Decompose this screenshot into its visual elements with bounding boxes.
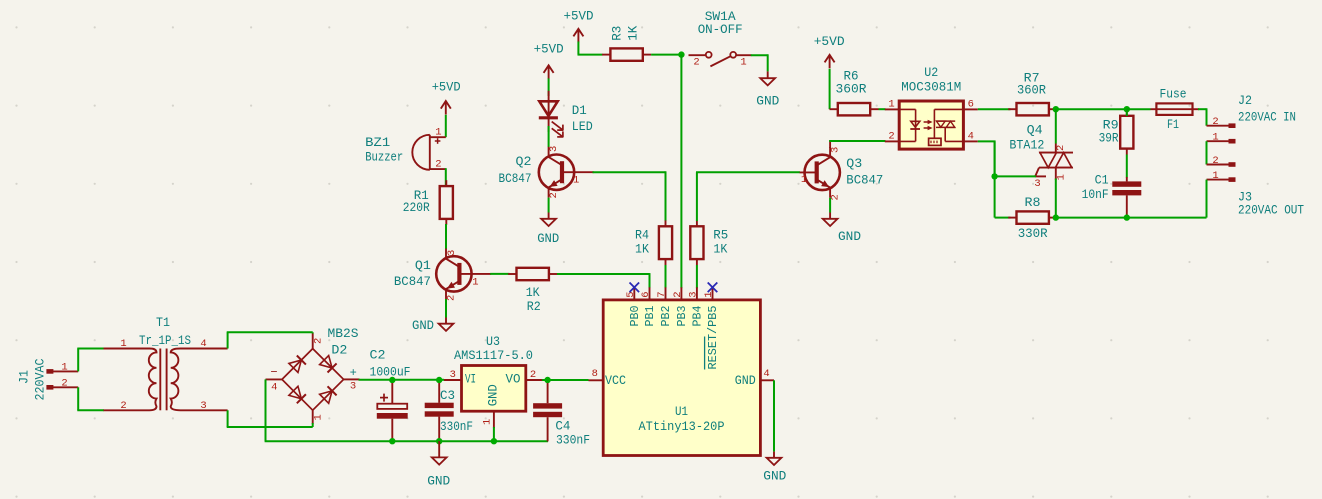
- svg-text:U1: U1: [675, 404, 688, 419]
- wire J1 pin2 down: [77, 387, 79, 410]
- wire T1 pin4 up: [227, 332, 229, 348]
- wire to bridge AC bottom: [227, 426, 313, 428]
- pin number 3 of T1: [200, 400, 206, 412]
- junction C3 bottom: [436, 438, 442, 444]
- pin name PB3: [676, 305, 689, 326]
- svg-text:3: 3: [350, 380, 356, 392]
- minus sign of D2: [270, 365, 277, 379]
- pin name PB4: [691, 305, 704, 326]
- svg-text:3: 3: [200, 400, 206, 412]
- junction C2 bottom: [389, 438, 395, 444]
- label GND: [427, 473, 450, 488]
- svg-text:3: 3: [450, 369, 456, 381]
- svg-text:C2: C2: [370, 348, 386, 363]
- no-connect X on U1 pin 1: [708, 283, 718, 293]
- ground (Q2): [541, 219, 556, 226]
- wire D1 to Q2 collector: [548, 126, 550, 147]
- svg-text:1000uF: 1000uF: [370, 365, 411, 380]
- wire R5 to U1 pin 3 (PB4): [696, 265, 698, 288]
- power +5VD (feeds BZ1): [441, 101, 451, 115]
- pin name GND of U1: [735, 374, 756, 388]
- junction C4 top: [544, 377, 550, 383]
- svg-text:C4: C4: [555, 418, 570, 433]
- label 220VAC IN: [1238, 109, 1296, 124]
- svg-text:BZ1: BZ1: [365, 135, 390, 150]
- pin number 6 of U2: [968, 98, 974, 110]
- wire down to GND: [767, 54, 769, 71]
- ground stub: [767, 71, 769, 78]
- connector J2 pin 1: [1207, 139, 1236, 144]
- label 220VAC: [33, 358, 48, 400]
- pin number 1 of U1: [703, 291, 715, 297]
- svg-text:1: 1: [703, 291, 715, 297]
- label D1: [572, 103, 587, 118]
- svg-text:R8: R8: [1025, 195, 1041, 210]
- svg-text:2: 2: [548, 192, 560, 198]
- svg-text:PB4: PB4: [691, 305, 704, 326]
- svg-text:3: 3: [1034, 178, 1040, 190]
- svg-text:1K: 1K: [635, 242, 649, 257]
- svg-text:2: 2: [445, 295, 457, 301]
- svg-text:R4: R4: [635, 227, 649, 242]
- wire junction to fuse: [1127, 108, 1151, 110]
- svg-text:R3: R3: [610, 26, 625, 41]
- label 360R: [836, 82, 867, 97]
- svg-text:1: 1: [312, 414, 324, 420]
- svg-text:3: 3: [446, 250, 458, 256]
- svg-text:+5VD: +5VD: [814, 34, 845, 49]
- ground stub: [773, 452, 775, 458]
- svg-text:GND: GND: [763, 469, 786, 484]
- label Q3: [846, 156, 862, 171]
- pin number 2 of Q4: [1055, 145, 1067, 151]
- resistor R9: [1120, 110, 1133, 155]
- wire J2 pin1 to J3 pin2: [1206, 141, 1208, 164]
- svg-text:1: 1: [801, 174, 807, 186]
- svg-text:+5VD: +5VD: [564, 9, 594, 24]
- svg-text:10nF: 10nF: [1082, 187, 1109, 202]
- pin number 2 of U2: [888, 131, 894, 143]
- label J3: [1238, 189, 1252, 204]
- label +5VD: [814, 34, 845, 49]
- ground stub: [445, 318, 447, 324]
- svg-text:39R: 39R: [1099, 131, 1119, 146]
- svg-text:1: 1: [120, 338, 126, 350]
- wire bottom rail to J3: [1057, 217, 1206, 219]
- svg-text:GND: GND: [838, 229, 861, 244]
- pin number 4 of U1: [763, 368, 769, 380]
- junction C1/rail: [1124, 214, 1130, 220]
- pin name PB1: [644, 305, 657, 326]
- label ON-OFF: [698, 22, 743, 37]
- svg-text:+: +: [350, 366, 357, 380]
- svg-text:Tr_1P_1S: Tr_1P_1S: [139, 333, 191, 348]
- wire Q3 collector to U2 pin 2: [829, 140, 885, 142]
- pin number 2 of J3: [1212, 155, 1218, 167]
- connector J3 pin 2: [1207, 162, 1236, 167]
- pin number 3 of Q1: [446, 250, 458, 256]
- wire bridge plus to C2: [359, 379, 393, 381]
- label BC847: [394, 274, 431, 289]
- label 1K: [526, 285, 540, 300]
- svg-text:GND: GND: [427, 473, 450, 488]
- label Fuse: [1160, 87, 1187, 102]
- svg-text:U2: U2: [924, 65, 938, 80]
- label +5VD: [534, 42, 564, 57]
- wire +5VD to BZ1 pin1: [445, 115, 447, 137]
- no-connect X on U1 pin 5: [630, 283, 640, 293]
- svg-text:PB2: PB2: [660, 305, 673, 326]
- svg-text:GND: GND: [537, 231, 559, 246]
- label C2: [370, 348, 386, 363]
- transistor Q1: [436, 249, 491, 300]
- label R2: [527, 299, 541, 314]
- svg-text:1: 1: [1212, 132, 1218, 144]
- wire down to U1 pin 6 (PB1): [649, 273, 651, 288]
- fuse F1: [1151, 103, 1200, 115]
- pin number 1 of J2: [1212, 132, 1218, 144]
- svg-text:C1: C1: [1095, 173, 1109, 188]
- wire bridge minus down: [265, 379, 267, 441]
- svg-text:J1: J1: [17, 370, 32, 384]
- svg-text:2: 2: [830, 194, 842, 200]
- svg-text:1: 1: [472, 276, 478, 288]
- transistor Q4 triac BTA12: [1035, 144, 1073, 181]
- svg-text:5: 5: [625, 291, 637, 297]
- svg-text:R2: R2: [527, 299, 541, 314]
- wire U2 pin 4 right: [978, 140, 996, 142]
- op-amp U2 optocoupler MOC3081M body: [899, 101, 963, 149]
- svg-text:220VAC OUT: 220VAC OUT: [1238, 202, 1304, 217]
- pin number 2 of U1: [672, 291, 684, 297]
- ground (Q1): [439, 324, 454, 331]
- power +5VD (feeds R6): [825, 55, 835, 69]
- svg-text:Q2: Q2: [516, 154, 532, 169]
- label +5VD: [432, 80, 461, 95]
- svg-text:220VAC: 220VAC: [33, 358, 48, 400]
- svg-text:2: 2: [888, 131, 894, 143]
- connector J2 pin 2: [1207, 123, 1236, 128]
- label R7: [1024, 70, 1040, 85]
- svg-text:RESET/PB5: RESET/PB5: [707, 305, 720, 369]
- pin name VO: [506, 372, 521, 386]
- resistor R4: [659, 220, 672, 265]
- svg-text:AMS1117-5.0: AMS1117-5.0: [454, 348, 533, 363]
- label R9: [1103, 117, 1119, 132]
- label R3: [610, 26, 625, 41]
- switch SW1A: [689, 52, 752, 67]
- wire U2 pin6 to R7: [978, 108, 1011, 110]
- label R5: [713, 227, 728, 242]
- svg-text:+5VD: +5VD: [432, 80, 461, 95]
- svg-text:1K: 1K: [526, 285, 540, 300]
- svg-text:Q4: Q4: [1027, 122, 1043, 137]
- wire down to R4: [665, 171, 667, 221]
- junction U3 GND: [491, 438, 497, 444]
- ground stub: [438, 441, 440, 457]
- svg-text:Q1: Q1: [415, 258, 431, 273]
- label R8: [1025, 195, 1041, 210]
- svg-text:3: 3: [548, 146, 560, 152]
- pin number 2 of D2: [312, 338, 324, 344]
- wire R2 to U1 pin 6 column: [557, 273, 650, 275]
- pin number 1 of U2: [888, 98, 894, 110]
- label 1K: [713, 242, 727, 257]
- svg-text:MB2S: MB2S: [328, 326, 359, 341]
- pin number 2 of U3: [530, 369, 536, 381]
- label Q1: [415, 258, 431, 273]
- svg-text:VCC: VCC: [605, 374, 626, 388]
- wire fuse to J2: [1198, 108, 1207, 110]
- svg-text:4: 4: [200, 338, 206, 350]
- diode D1 LED: [539, 91, 563, 138]
- wire to Q3 base: [696, 171, 800, 173]
- label 1K: [626, 26, 641, 41]
- svg-text:3: 3: [687, 291, 699, 297]
- svg-text:−: −: [270, 365, 277, 379]
- label +5VD: [564, 9, 594, 24]
- label F1: [1167, 117, 1179, 132]
- wire J3 pin1 down to bottom rail: [1206, 180, 1208, 218]
- resistor R6: [830, 103, 879, 115]
- wire gate of Q4: [995, 175, 1036, 177]
- connector J1 pin 2: [46, 385, 78, 390]
- svg-text:4: 4: [271, 382, 277, 394]
- U2 internal LED and triac drawing: [885, 109, 978, 145]
- pin number 3 of U3: [450, 369, 456, 381]
- wire R4 to U1 pin 7 (PB2): [665, 265, 667, 288]
- svg-text:+5VD: +5VD: [534, 42, 564, 57]
- svg-text:1K: 1K: [626, 26, 641, 41]
- label MB2S: [328, 326, 359, 341]
- label C4: [555, 418, 570, 433]
- svg-text:BTA12: BTA12: [1009, 138, 1044, 153]
- ground stub: [548, 213, 550, 219]
- wire R3 to junction: [651, 54, 681, 56]
- label U1: [675, 404, 688, 419]
- label GND: [838, 229, 861, 244]
- wire corner down: [994, 141, 996, 176]
- wire Q1 base to R2: [490, 273, 509, 275]
- wire to R8: [995, 217, 1011, 219]
- wire U3 GND down: [493, 427, 495, 441]
- svg-text:330nF: 330nF: [556, 433, 590, 448]
- pin number 4 of U2: [968, 131, 974, 143]
- pin number 3 of U1: [687, 291, 699, 297]
- pin name PB0: [629, 305, 642, 326]
- label GND: [537, 231, 559, 246]
- label SW1A: [705, 9, 736, 24]
- U1 pins: [589, 287, 775, 380]
- svg-text:2: 2: [1212, 116, 1218, 128]
- pin name RESET/PB5 with overbar: [705, 305, 720, 369]
- svg-text:2: 2: [120, 400, 126, 412]
- label 220VAC OUT: [1238, 202, 1304, 217]
- label BC847: [499, 171, 532, 186]
- svg-text:J2: J2: [1238, 93, 1252, 108]
- svg-text:1: 1: [435, 126, 441, 138]
- svg-text:LED: LED: [572, 119, 593, 134]
- label U3: [486, 334, 500, 349]
- svg-text:Q3: Q3: [846, 156, 862, 171]
- svg-text:2: 2: [530, 369, 536, 381]
- wire SW1A pin1 right: [751, 54, 768, 56]
- pin number 2 of BZ1: [435, 159, 441, 171]
- pin number 7 of U1: [656, 291, 668, 297]
- label BZ1: [365, 135, 390, 150]
- transformer T1: [104, 349, 228, 411]
- pin number 1 of BZ1: [435, 126, 441, 138]
- op-amp U3 regulator AMS1117-5.0 body: [462, 366, 526, 412]
- junction R7/triac: [1053, 106, 1059, 112]
- label 360R: [1017, 82, 1046, 97]
- label AMS1117-5.0: [454, 348, 533, 363]
- wire to T1 pin 1: [77, 348, 104, 350]
- svg-text:1: 1: [573, 175, 579, 187]
- label 10nF: [1082, 187, 1109, 202]
- label 220R: [403, 200, 430, 215]
- svg-text:330R: 330R: [1018, 226, 1048, 241]
- svg-text:3: 3: [830, 147, 842, 153]
- resistor R8: [1008, 211, 1057, 223]
- wire +5VD down to R6: [829, 69, 831, 109]
- pin number 2 of T1: [120, 400, 126, 412]
- wire J1 pin1 up: [77, 349, 79, 372]
- wire corner: [312, 332, 314, 333]
- svg-text:ATtiny13-20P: ATtiny13-20P: [639, 419, 725, 434]
- svg-text:1: 1: [888, 98, 894, 110]
- wire bottom rail left: [265, 440, 393, 442]
- svg-text:7: 7: [656, 291, 668, 297]
- pin number 1 of U3: [482, 419, 494, 425]
- resistor R7: [1008, 103, 1057, 115]
- resistor R1: [440, 180, 453, 225]
- svg-text:2: 2: [1055, 145, 1067, 151]
- label Q2: [516, 154, 532, 169]
- resistor R2: [508, 268, 557, 280]
- svg-text:Fuse: Fuse: [1160, 87, 1187, 102]
- label J1: [17, 370, 32, 384]
- wire BZ1 to R1: [445, 168, 447, 186]
- svg-text:2: 2: [312, 338, 324, 344]
- pin number 2 of J2: [1212, 116, 1218, 128]
- pin number 1 of SW1A: [740, 56, 746, 68]
- plus sign of D2: [350, 366, 357, 380]
- connector J3 pin 1: [1207, 177, 1236, 182]
- junction node SW/PB3: [678, 51, 684, 57]
- label 1K: [635, 242, 649, 257]
- svg-text:1: 1: [740, 56, 746, 68]
- junction gate: [991, 173, 997, 179]
- wire T1 pin3 down: [227, 410, 229, 427]
- svg-text:GND: GND: [735, 374, 756, 388]
- label BTA12: [1009, 138, 1044, 153]
- pin number 1 of Q1: [472, 276, 478, 288]
- pin number 2 of Q2: [548, 192, 560, 198]
- svg-text:BC847: BC847: [499, 171, 532, 186]
- svg-text:C3: C3: [440, 388, 455, 403]
- transistor Q3: [800, 147, 840, 198]
- wire C3 to U3 pin VI: [439, 379, 444, 381]
- ground (SW1A): [760, 78, 775, 85]
- svg-text:220R: 220R: [403, 200, 430, 215]
- svg-text:MOC3081M: MOC3081M: [901, 80, 961, 95]
- wire bottom rail: [391, 440, 548, 442]
- capacitor C1: [1112, 177, 1141, 218]
- ground (U1): [767, 458, 782, 465]
- pin number 1 of T1: [120, 338, 126, 350]
- svg-text:360R: 360R: [1017, 82, 1046, 97]
- label MOC3081M: [901, 80, 961, 95]
- wire Q2 base to R4 column: [593, 171, 666, 173]
- svg-text:VO: VO: [506, 372, 521, 386]
- svg-text:6: 6: [640, 291, 652, 297]
- pin number 3 of Q3: [830, 147, 842, 153]
- wire junction to R9: [1126, 109, 1128, 116]
- svg-text:2: 2: [672, 291, 684, 297]
- wire R6 to U2 pin 1: [879, 108, 886, 110]
- label C3: [440, 388, 455, 403]
- label T1: [156, 315, 170, 330]
- label Q4: [1027, 122, 1043, 137]
- wire +5VD to D1 anode: [548, 78, 550, 96]
- pin name VI: [465, 372, 476, 386]
- pin number 1 of Q2: [573, 175, 579, 187]
- label LED: [572, 119, 593, 134]
- wire R7 to fuse row: [1057, 108, 1127, 110]
- wire R9 to C1: [1126, 155, 1128, 178]
- svg-text:VI: VI: [465, 372, 476, 386]
- wire R5 top up: [696, 172, 698, 221]
- wire to R3 pin 1: [578, 54, 603, 56]
- label Tr_1P_1S: [139, 333, 191, 348]
- ground (supply): [432, 457, 447, 464]
- svg-text:2: 2: [693, 56, 699, 68]
- capacitor C2: [377, 383, 408, 441]
- junction C3 top: [436, 377, 442, 383]
- pin number 5 of U1: [625, 291, 637, 297]
- label BC847: [846, 173, 883, 188]
- svg-text:8: 8: [592, 368, 598, 380]
- svg-text:2: 2: [435, 159, 441, 171]
- label R4: [635, 227, 649, 242]
- svg-text:GND: GND: [487, 384, 501, 406]
- wire Q2 emitter to GND: [548, 198, 550, 213]
- wire down to J2 pin 2: [1206, 108, 1208, 125]
- pin number 1 of J1: [61, 361, 67, 373]
- wire to T1 pin 2: [77, 409, 104, 411]
- pin number 6 of U1: [640, 291, 652, 297]
- svg-text:6: 6: [968, 98, 974, 110]
- wire +5VD down to R3 row: [577, 42, 579, 55]
- wire junction down to U1 pin 2 (PB3): [680, 55, 682, 289]
- svg-text:BC847: BC847: [394, 274, 431, 289]
- svg-text:PB0: PB0: [629, 305, 642, 326]
- svg-text:1: 1: [61, 361, 67, 373]
- pin name GND of U3: [487, 384, 501, 406]
- label 39R: [1099, 131, 1119, 146]
- pin number 1 of Q4: [1056, 174, 1068, 180]
- power +5VD (feeds R3): [573, 29, 583, 43]
- label GND: [412, 318, 434, 333]
- label ATtiny13-20P: [639, 419, 725, 434]
- capacitor C3: [425, 383, 454, 441]
- pin name VCC: [605, 374, 626, 388]
- label 330nF: [556, 433, 590, 448]
- pin number 3 of D2: [350, 380, 356, 392]
- svg-text:PB1: PB1: [644, 305, 657, 326]
- diode D2 bridge rectifier MB2S: [266, 334, 360, 425]
